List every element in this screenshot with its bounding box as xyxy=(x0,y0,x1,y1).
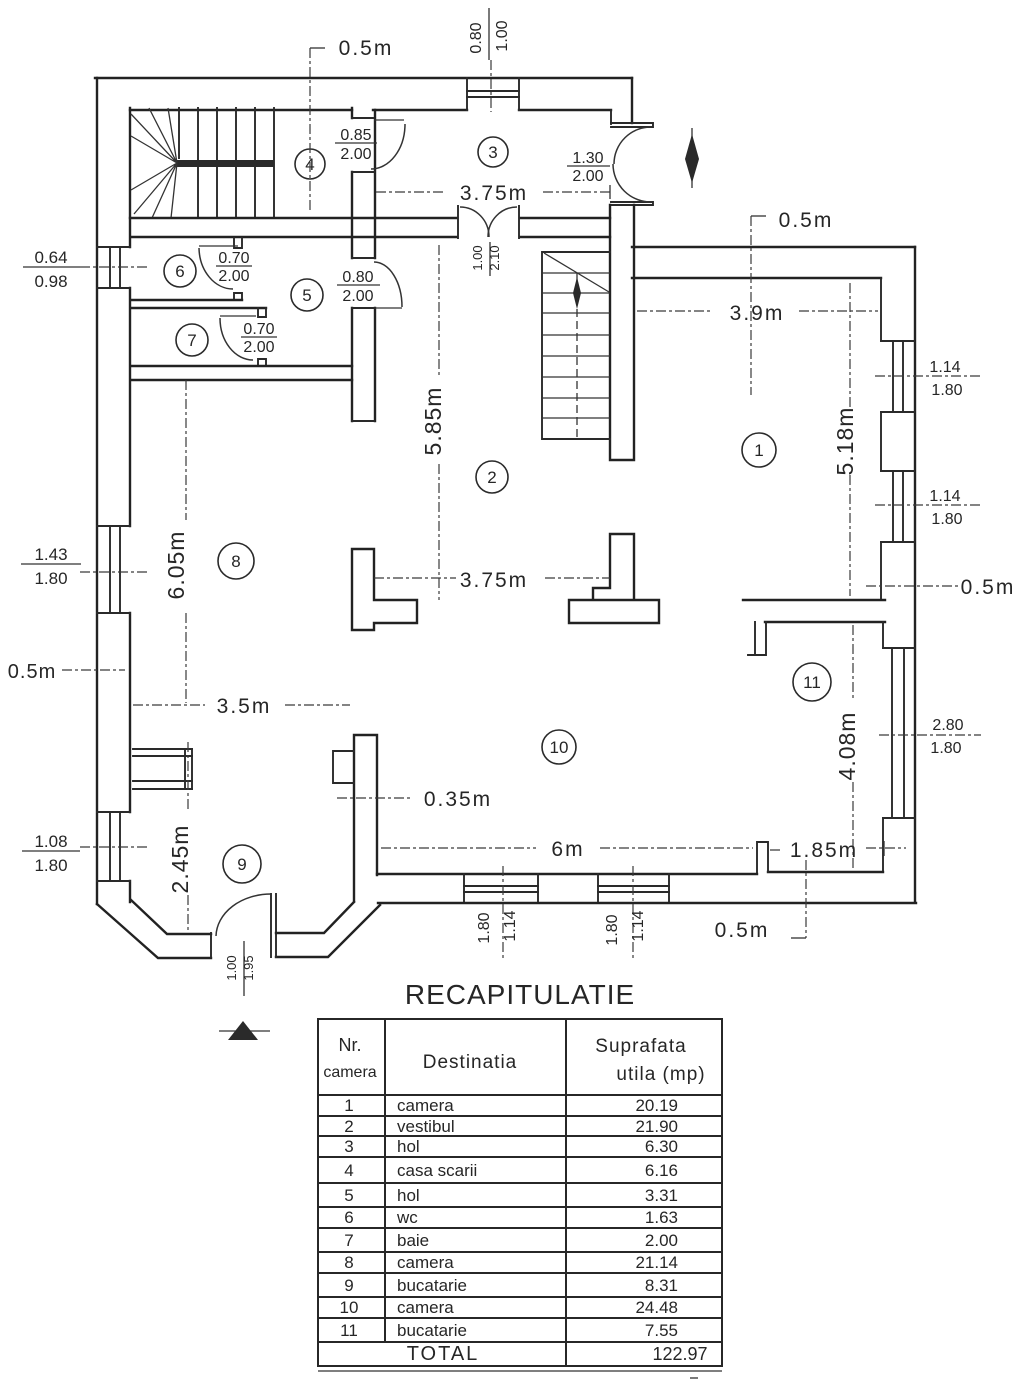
svg-text:6.16: 6.16 xyxy=(645,1161,678,1180)
wall stub room11 south-west xyxy=(757,842,768,872)
dim 0.5m top-right xyxy=(751,215,766,217)
dim 5.18m rotated xyxy=(849,283,851,596)
stair main landing edge xyxy=(273,108,275,218)
svg-text:7.55: 7.55 xyxy=(645,1321,678,1340)
svg-text:5.85m: 5.85m xyxy=(420,387,446,456)
dim 0.5m right-mid xyxy=(866,585,960,587)
svg-text:0.5m: 0.5m xyxy=(8,661,56,683)
svg-text:1.80: 1.80 xyxy=(34,569,67,588)
door jamb 3.75 opening xyxy=(458,206,519,238)
stair vestibul center line xyxy=(576,273,578,439)
door double 3.75 right leaf xyxy=(488,207,517,237)
stair vestibul box xyxy=(542,252,610,439)
dim 1.43/1.80 left xyxy=(21,563,81,565)
svg-text:3.31: 3.31 xyxy=(645,1186,678,1205)
door 9 arc xyxy=(216,894,271,936)
svg-text:1.80: 1.80 xyxy=(930,740,961,757)
dim 1.14/1.80 right upper xyxy=(875,375,980,377)
stair vestibul break line xyxy=(544,253,609,292)
window right 1.14/1.80 lower xyxy=(881,471,914,542)
svg-text:Nr.: Nr. xyxy=(338,1035,361,1055)
svg-text:0.64: 0.64 xyxy=(34,248,67,267)
svg-text:Destinatia: Destinatia xyxy=(423,1052,518,1073)
dim 0.64/0.98 left xyxy=(23,266,80,268)
svg-text:vestibul: vestibul xyxy=(397,1117,455,1136)
svg-text:8: 8 xyxy=(231,552,240,571)
table row lines xyxy=(318,1095,722,1342)
svg-text:1.85m: 1.85m xyxy=(790,839,858,862)
svg-text:RECAPITULATIE: RECAPITULATIE xyxy=(405,979,635,1010)
wall hall3 west jamb at entrance xyxy=(610,110,612,124)
wall room10 south inner xyxy=(377,873,757,875)
door 6 arc xyxy=(199,248,233,289)
wall outer top xyxy=(95,77,632,79)
svg-text:1.80: 1.80 xyxy=(34,856,67,875)
dim 2.45m rotated xyxy=(187,742,189,933)
door entrance lower leaf xyxy=(613,164,652,202)
svg-text:3: 3 xyxy=(488,143,497,162)
door double 3.75 left leaf xyxy=(460,207,489,237)
svg-text:2.80: 2.80 xyxy=(932,717,963,734)
room circle 10 xyxy=(542,730,576,764)
svg-text:hol: hol xyxy=(397,1186,420,1205)
svg-text:1.00: 1.00 xyxy=(494,20,511,51)
pillar foot room9 xyxy=(333,751,354,783)
stair vestibul direction arrow xyxy=(573,277,581,309)
north arrow xyxy=(691,128,693,188)
stair main winder fan xyxy=(131,108,177,218)
door 9 jamb xyxy=(211,894,276,957)
door 7 leaf line xyxy=(220,315,256,317)
svg-text:1.14: 1.14 xyxy=(502,910,519,941)
svg-text:2.10: 2.10 xyxy=(487,245,502,270)
wall duct east side xyxy=(185,749,192,789)
svg-text:10: 10 xyxy=(340,1298,359,1317)
table outer frame xyxy=(318,1019,722,1366)
svg-text:0.5m: 0.5m xyxy=(961,576,1016,599)
dim 1.08/1.80 left xyxy=(22,850,80,852)
door 4 leaf line xyxy=(374,119,404,121)
svg-text:2.00: 2.00 xyxy=(572,168,603,185)
svg-text:1.80: 1.80 xyxy=(931,511,962,528)
label door 0.80/2.00 room5 xyxy=(337,284,380,286)
label door 0.70/2.00 room7 xyxy=(241,336,277,338)
door 7 arc xyxy=(220,318,253,360)
wall room8 south band xyxy=(133,749,192,756)
door entrance upper leaf xyxy=(614,127,652,164)
window bottom 1.14/1.80 east xyxy=(598,874,669,901)
svg-text:0.80: 0.80 xyxy=(342,269,373,286)
svg-text:5: 5 xyxy=(344,1186,353,1205)
wall partition room6-room5 xyxy=(234,238,242,300)
dim 3.75m top xyxy=(376,191,612,193)
window top 0.80/1.00 glazing lines xyxy=(467,91,519,97)
dim 3.75m mid xyxy=(374,577,610,579)
stair main upper treads xyxy=(179,108,255,160)
room circle 2 xyxy=(476,461,508,493)
dim 1.14/1.80 right lower xyxy=(875,504,980,506)
dim 6m xyxy=(381,847,753,849)
svg-text:6.05m: 6.05m xyxy=(163,531,189,600)
wall room9-room10 divider xyxy=(354,735,377,901)
svg-text:0.35m: 0.35m xyxy=(424,788,492,811)
entrance jamb bottom xyxy=(611,202,653,205)
svg-text:5: 5 xyxy=(302,286,311,305)
wall room1 east below window2 xyxy=(880,542,882,600)
dim 1.00/1.95 rotated xyxy=(243,941,245,996)
dim 0.5m bottom-right xyxy=(805,860,807,938)
svg-text:4: 4 xyxy=(344,1161,353,1180)
wall outer bottom after door 9 xyxy=(276,905,380,957)
svg-text:hol: hol xyxy=(397,1137,420,1156)
room circle 5 xyxy=(291,279,323,311)
window left 0.64/0.98 xyxy=(97,247,130,288)
svg-text:1: 1 xyxy=(754,441,763,460)
dim 1.85m xyxy=(770,848,906,850)
svg-text:2: 2 xyxy=(487,468,496,487)
south arrow xyxy=(219,1030,270,1032)
pillar east of vestibul opening xyxy=(569,534,659,623)
dim 3.9m xyxy=(637,310,878,312)
wall room1 east between windows xyxy=(880,412,882,471)
window right 2.80/1.80 xyxy=(883,648,915,818)
svg-text:utila (mp): utila (mp) xyxy=(616,1064,705,1085)
svg-text:2.45m: 2.45m xyxy=(167,825,193,894)
svg-text:bucatarie: bucatarie xyxy=(397,1276,467,1295)
stair main middle rail xyxy=(176,160,274,167)
svg-text:2.00: 2.00 xyxy=(342,288,373,305)
svg-text:2.00: 2.00 xyxy=(340,146,371,163)
wall room1 south band xyxy=(743,600,885,622)
svg-text:1.63: 1.63 xyxy=(645,1208,678,1227)
table column separators xyxy=(385,1019,566,1366)
svg-text:2.00: 2.00 xyxy=(218,268,249,285)
room circle 11 xyxy=(793,663,831,701)
svg-text:6m: 6m xyxy=(551,838,584,861)
door recess room4 caps xyxy=(352,118,374,172)
dim 4.08m rotated xyxy=(852,625,854,868)
svg-text:8.31: 8.31 xyxy=(645,1276,678,1295)
svg-text:0.5m: 0.5m xyxy=(715,919,770,942)
wall room7 south band xyxy=(131,366,352,380)
svg-text:1.14: 1.14 xyxy=(929,488,960,505)
svg-text:8: 8 xyxy=(344,1253,353,1272)
svg-text:7: 7 xyxy=(187,331,196,350)
svg-text:TOTAL: TOTAL xyxy=(407,1343,480,1365)
wall partition room7-room5 xyxy=(258,308,266,366)
svg-text:10: 10 xyxy=(550,738,569,757)
svg-text:11: 11 xyxy=(340,1321,358,1340)
svg-text:0.5m: 0.5m xyxy=(779,209,834,232)
window top 0.80/1.00 jambs xyxy=(467,78,519,110)
room circle 8 xyxy=(218,543,254,579)
wall band stairwell east xyxy=(610,205,634,460)
svg-text:3.75m: 3.75m xyxy=(460,569,528,592)
svg-text:0.98: 0.98 xyxy=(34,272,67,291)
svg-text:1.14: 1.14 xyxy=(630,910,647,941)
room circle 6 xyxy=(164,255,196,287)
svg-text:20.19: 20.19 xyxy=(635,1096,678,1115)
door 5 opening caps xyxy=(352,258,374,421)
svg-text:1.00: 1.00 xyxy=(470,245,485,270)
svg-text:1.30: 1.30 xyxy=(572,150,603,167)
svg-text:Suprafata: Suprafata xyxy=(595,1036,686,1057)
svg-text:5.18m: 5.18m xyxy=(832,407,858,476)
svg-text:1.80: 1.80 xyxy=(931,382,962,399)
svg-text:3: 3 xyxy=(344,1137,353,1156)
wall room11 south band xyxy=(768,871,883,873)
wall room4 south / hall band xyxy=(130,217,610,219)
svg-text:camera: camera xyxy=(323,1064,376,1081)
svg-text:6: 6 xyxy=(175,262,184,281)
wall outer left xyxy=(96,78,98,904)
wall outer west jamb of entrance xyxy=(631,78,633,123)
svg-text:11: 11 xyxy=(803,673,821,692)
pillar west of vestibul opening xyxy=(352,549,417,630)
svg-text:0.70: 0.70 xyxy=(243,321,274,338)
svg-text:1.80: 1.80 xyxy=(604,914,621,945)
svg-text:casa scarii: casa scarii xyxy=(397,1161,477,1180)
svg-text:1.80: 1.80 xyxy=(476,912,493,943)
room circle 9 xyxy=(223,845,261,883)
dim 0.5m left xyxy=(62,669,125,671)
svg-text:3.75m: 3.75m xyxy=(460,182,528,205)
wall room1 east inner above window1 xyxy=(880,278,882,341)
door 6 leaf line xyxy=(199,245,238,247)
svg-text:1.14: 1.14 xyxy=(929,359,960,376)
svg-text:2.00: 2.00 xyxy=(645,1231,678,1250)
dim window bottom west 1.14/1.80 rotated xyxy=(502,866,504,958)
dim 3.5m xyxy=(133,704,350,706)
svg-text:6.30: 6.30 xyxy=(645,1137,678,1156)
stair vestibul treads xyxy=(542,273,610,418)
svg-text:7: 7 xyxy=(344,1231,353,1250)
window left 1.43/1.80 xyxy=(97,526,130,613)
svg-text:3.5m: 3.5m xyxy=(217,695,272,718)
room circle 1 xyxy=(742,433,776,467)
room circle 4 xyxy=(295,149,325,179)
svg-text:9: 9 xyxy=(344,1276,353,1295)
wall room11 east inner segments xyxy=(882,622,884,872)
svg-text:camera: camera xyxy=(397,1253,454,1272)
window right 1.14/1.80 upper xyxy=(881,341,914,412)
dim 5.85m rotated xyxy=(438,245,440,600)
svg-text:1.43: 1.43 xyxy=(34,545,67,564)
door 4 arc xyxy=(371,124,405,169)
label door 0.70/2.00 room6 xyxy=(216,265,252,267)
dim 0.35m xyxy=(337,797,412,799)
svg-text:0.5m: 0.5m xyxy=(339,37,394,60)
svg-text:122.97: 122.97 xyxy=(652,1344,707,1364)
svg-text:1.08: 1.08 xyxy=(34,832,67,851)
door 5 arc xyxy=(374,262,402,307)
room circle 7 xyxy=(176,324,208,356)
wall inner bottom-left diagonal xyxy=(131,900,211,934)
window bottom 1.14/1.80 west xyxy=(464,874,538,901)
svg-text:1.00: 1.00 xyxy=(224,955,239,980)
svg-text:camera: camera xyxy=(397,1096,454,1115)
dim 6.05m rotated xyxy=(185,380,187,703)
dim window bottom east 1.14/1.80 rotated xyxy=(632,866,634,958)
wall outer right xyxy=(914,247,916,902)
svg-text:1: 1 xyxy=(344,1096,353,1115)
svg-text:4.08m: 4.08m xyxy=(834,712,860,781)
svg-text:0.80: 0.80 xyxy=(468,22,485,53)
wall inner left face xyxy=(129,108,131,902)
svg-text:3.9m: 3.9m xyxy=(730,302,785,325)
table bottom outer line xyxy=(318,1370,722,1372)
door 5 leaf line xyxy=(375,307,402,309)
dim 1.00/2.10 rotated xyxy=(489,242,491,276)
svg-text:baie: baie xyxy=(397,1231,429,1250)
wall inner top face xyxy=(130,109,611,111)
svg-text:camera: camera xyxy=(397,1298,454,1317)
svg-text:2.00: 2.00 xyxy=(243,339,274,356)
label door 1.30/2.00 xyxy=(567,165,610,167)
dim 2.80/1.80 xyxy=(879,734,981,736)
svg-text:2: 2 xyxy=(344,1117,353,1136)
svg-text:24.48: 24.48 xyxy=(635,1298,678,1317)
svg-text:6: 6 xyxy=(344,1208,353,1227)
wall room1 north inner xyxy=(632,277,881,279)
wall outer bottom main xyxy=(378,902,916,904)
wall room9 north band xyxy=(133,781,192,789)
dim 0.80/1.00 top rotated xyxy=(488,8,490,60)
svg-text:0.85: 0.85 xyxy=(340,127,371,144)
svg-text:21.90: 21.90 xyxy=(635,1117,678,1136)
stray mark bottom right xyxy=(690,1377,698,1379)
svg-text:21.14: 21.14 xyxy=(635,1253,678,1272)
wall inner bottom right of door 9 xyxy=(276,902,354,933)
svg-text:1.95: 1.95 xyxy=(241,955,256,980)
entrance jamb top xyxy=(611,123,653,127)
dim 0.5m top-left xyxy=(310,47,325,49)
svg-text:9: 9 xyxy=(237,855,246,874)
wall band x352 room4-hall xyxy=(351,108,353,421)
svg-text:wc: wc xyxy=(396,1208,418,1227)
window left 1.08/1.80 xyxy=(97,812,130,881)
wall outer bottom-left diagonal xyxy=(97,904,211,958)
wall room6-room7 band xyxy=(131,300,266,308)
svg-text:bucatarie: bucatarie xyxy=(397,1321,467,1340)
wall outer top-right of room 1 xyxy=(632,246,915,248)
svg-text:0.70: 0.70 xyxy=(218,250,249,267)
stair main lower treads xyxy=(198,167,255,218)
wall stub room11 north-west xyxy=(748,622,766,655)
label door 0.85/2.00 xyxy=(335,142,377,144)
room circle 3 xyxy=(478,137,508,167)
